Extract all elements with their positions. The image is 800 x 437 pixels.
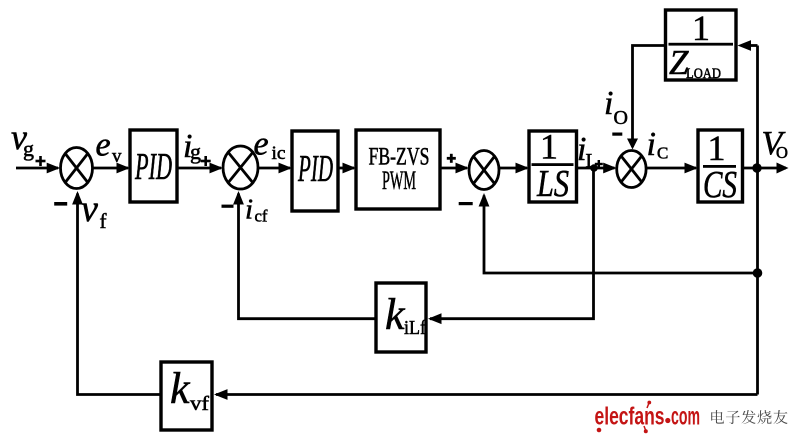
block kvf bbox=[161, 362, 212, 430]
block 1/LS bbox=[529, 131, 577, 202]
block kiLf bbox=[376, 283, 426, 352]
logo chinese dian-zi-fa-shao-you bbox=[711, 410, 724, 424]
wire ZLOAD to S4 bbox=[633, 46, 666, 148]
svg-text:elecfans: elecfans bbox=[595, 403, 665, 431]
block PID1 bbox=[130, 130, 177, 202]
svg-text:L: L bbox=[586, 150, 598, 172]
label minus S2 bbox=[222, 205, 234, 208]
svg-text:PWM: PWM bbox=[382, 166, 416, 195]
svg-text:PID: PID bbox=[297, 148, 333, 190]
summing junction S1 bbox=[61, 148, 93, 189]
wire CS to output bbox=[743, 167, 787, 170]
wire input vg bbox=[16, 167, 58, 170]
wire FBZVS to S3 bbox=[440, 167, 467, 170]
wire S1 to PID1 bbox=[93, 167, 129, 170]
block PID2 bbox=[292, 131, 338, 211]
block FB-ZVS PWM bbox=[356, 130, 440, 209]
node dot Vo bbox=[752, 163, 761, 172]
svg-text:com: com bbox=[671, 403, 700, 431]
summing junction S4 bbox=[617, 151, 646, 188]
wire S4 to CS bbox=[646, 167, 696, 170]
label minus S4 bbox=[612, 133, 622, 136]
wire kiLf to S2 bbox=[239, 194, 377, 319]
svg-text:e: e bbox=[254, 126, 269, 163]
label plus S3 bbox=[447, 157, 456, 160]
svg-text:v: v bbox=[112, 146, 122, 167]
svg-text:1: 1 bbox=[540, 127, 558, 167]
wire riser to ZLOAD bbox=[750, 44, 758, 47]
svg-text:iLf: iLf bbox=[404, 317, 426, 339]
svg-text:v: v bbox=[81, 188, 98, 230]
node dot feedback bbox=[753, 268, 763, 278]
svg-text:vf: vf bbox=[190, 393, 209, 415]
svg-text:cf: cf bbox=[255, 207, 268, 226]
svg-text:e: e bbox=[96, 127, 111, 164]
wire PID1 to S2 bbox=[177, 167, 221, 170]
svg-text:g: g bbox=[23, 136, 34, 161]
block 1/CS bbox=[698, 130, 743, 202]
wire Vo riser bbox=[756, 46, 759, 395]
svg-text:LS: LS bbox=[536, 163, 569, 205]
wire Vo to S3 feedback bbox=[484, 196, 758, 274]
svg-text:1: 1 bbox=[692, 8, 710, 48]
svg-text:C: C bbox=[657, 144, 668, 163]
svg-text:i: i bbox=[647, 126, 656, 163]
summing junction S2 bbox=[223, 146, 258, 189]
svg-text:CS: CS bbox=[703, 164, 737, 206]
svg-text:O: O bbox=[776, 143, 788, 162]
svg-text:PID: PID bbox=[134, 146, 172, 188]
wire kvf to S1 bbox=[78, 194, 162, 395]
svg-text:LOAD: LOAD bbox=[686, 66, 721, 82]
svg-text:O: O bbox=[614, 107, 628, 129]
wire iL to kiLf bbox=[430, 168, 594, 319]
svg-text:1: 1 bbox=[708, 128, 726, 168]
svg-text:k: k bbox=[170, 364, 191, 413]
wire S2 to PID2 bbox=[258, 167, 290, 170]
svg-text:i: i bbox=[245, 194, 253, 226]
summing junction S3 bbox=[469, 151, 499, 190]
block 1/ZLOAD bbox=[666, 10, 737, 80]
svg-text:f: f bbox=[100, 209, 107, 233]
node dot iL bbox=[590, 164, 598, 172]
wire Vo to kvf bbox=[216, 393, 758, 396]
svg-text:k: k bbox=[385, 290, 406, 339]
svg-text:i: i bbox=[604, 85, 613, 122]
svg-text:ic: ic bbox=[272, 143, 286, 164]
wire LS to S4 bbox=[577, 167, 615, 170]
svg-text:g: g bbox=[190, 139, 201, 164]
label minus S3 bbox=[459, 202, 473, 205]
wire PID2 to FBZVS bbox=[338, 167, 354, 170]
label minus S1 bbox=[54, 202, 67, 206]
wire S3 to LS bbox=[499, 167, 527, 170]
